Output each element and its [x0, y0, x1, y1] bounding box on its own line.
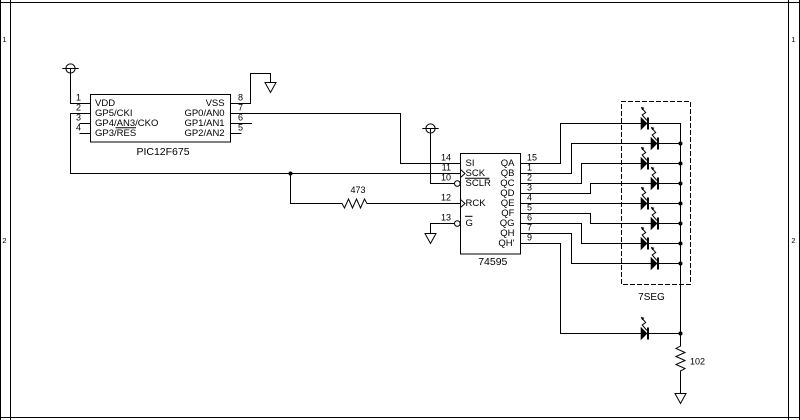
wire U2 QF to LED D6 — [521, 213, 591, 215]
ground symbol GND2 — [425, 234, 436, 244]
U2 G overline — [466, 215, 473, 217]
svg-text:GP3/RES: GP3/RES — [95, 128, 136, 139]
svg-text:RCK: RCK — [466, 198, 487, 209]
LED D1 — [641, 118, 647, 130]
svg-text:11: 11 — [442, 163, 451, 173]
U1 pin 5 stub — [231, 133, 242, 135]
wire U1 pin2 GP5 to U2 SCK — [70, 114, 72, 174]
svg-text:1: 1 — [2, 35, 6, 44]
U2 clock wedge SCK — [461, 170, 466, 178]
wire LED D3 cathode to bus — [649, 163, 681, 165]
svg-text:4: 4 — [76, 123, 81, 133]
U1 pin 2 stub — [71, 113, 91, 115]
svg-text:8: 8 — [238, 93, 243, 103]
svg-text:3: 3 — [76, 113, 81, 123]
svg-text:2: 2 — [791, 236, 795, 245]
wire P1 to U1 pin1 — [70, 69, 72, 104]
ground symbol GND3 — [675, 394, 686, 404]
U2 inversion bubble SCLR pin10 — [455, 181, 461, 187]
svg-text:1: 1 — [791, 35, 795, 44]
U1 pin 6 stub — [231, 123, 252, 125]
frame border — [0, 2, 800, 4]
wire U1 pin8 to ground — [250, 74, 252, 104]
U2 inversion bubble G pin13 — [455, 221, 461, 227]
IC U2 74595 body — [461, 154, 521, 255]
resistor R1 473 — [342, 199, 367, 208]
LED D8 — [651, 258, 657, 270]
LED D6 — [651, 218, 657, 230]
svg-text:2: 2 — [2, 236, 6, 245]
U1 pin 1 stub — [71, 103, 91, 105]
wire U2 QH&#39; to LED D9 — [521, 243, 561, 245]
junction dots on bus — [679, 142, 683, 146]
wire cathode bus vertical — [680, 124, 682, 347]
U1 pin 8 stub — [231, 103, 251, 105]
svg-text:2: 2 — [76, 103, 81, 113]
U1 pin 3 stub — [80, 123, 91, 125]
wire resistor to U2 RCK — [367, 203, 461, 205]
U2 pin 13 stub — [431, 223, 455, 225]
LED D5 — [641, 198, 647, 210]
U1 RES overline — [116, 127, 136, 129]
LED D7 — [641, 238, 647, 250]
svg-text:74595: 74595 — [478, 256, 507, 268]
wire U2 QC to LED D3 — [521, 183, 582, 185]
LED D9 — [641, 328, 647, 340]
wire LED D4 cathode to bus — [659, 183, 681, 185]
wire LED D8 cathode to bus — [659, 263, 681, 265]
wire P2 to U2 SCLR — [430, 129, 432, 184]
svg-text:15: 15 — [527, 153, 537, 163]
svg-text:14: 14 — [441, 153, 451, 163]
wire U2 QD to LED D4 — [521, 193, 591, 195]
LED D4 — [651, 178, 657, 190]
svg-text:7: 7 — [238, 103, 243, 113]
power flag VCC P1 — [66, 64, 75, 73]
U2 pin 14 stub — [440, 163, 461, 165]
display module 7SEG dashed outline — [622, 102, 691, 285]
resistor R2 102 — [676, 346, 685, 371]
power flag VCC P2 — [426, 124, 435, 133]
svg-text:13: 13 — [441, 213, 451, 223]
svg-text:12: 12 — [441, 193, 451, 203]
wire LED D2 cathode to bus — [659, 143, 681, 145]
wire U1 pin7 GP0 to U2 SI — [231, 113, 401, 115]
LED D2 — [651, 138, 657, 150]
wire U2 QB to LED D2 — [521, 173, 572, 175]
wire LED D7 cathode to bus — [649, 243, 681, 245]
wire LED D9 cathode to bus — [649, 333, 681, 335]
wire R2 to ground — [680, 371, 682, 394]
svg-text:1: 1 — [76, 93, 81, 103]
wire U2 QA to LED D1 — [521, 163, 561, 165]
svg-text:SCLR: SCLR — [466, 178, 491, 189]
U2 clock wedge RCK — [461, 200, 466, 208]
ground symbol GND1 — [265, 83, 276, 93]
node junction SCK/RCK — [289, 172, 293, 176]
wire junction down to resistor — [290, 174, 292, 204]
wire U2 QG to LED D7 — [521, 223, 582, 225]
IC U1 PIC12F675 body — [91, 95, 231, 143]
wire U2 QH to LED D8 — [521, 233, 572, 235]
svg-text:QH': QH' — [498, 238, 514, 249]
U2 SCLR overline — [466, 177, 490, 179]
svg-text:7SEG: 7SEG — [638, 292, 665, 303]
svg-text:102: 102 — [690, 357, 705, 367]
svg-text:GP2/AN2: GP2/AN2 — [184, 128, 224, 139]
svg-text:G: G — [466, 218, 473, 229]
U1 pin 4 stub — [80, 133, 91, 135]
wire U2 G to ground — [430, 224, 432, 234]
wire LED D6 cathode to bus — [659, 223, 681, 225]
wire LED D1 cathode to bus — [649, 123, 681, 125]
svg-text:473: 473 — [350, 185, 365, 195]
LED D3 — [641, 158, 647, 170]
svg-text:PIC12F675: PIC12F675 — [136, 146, 189, 158]
svg-text:10: 10 — [441, 173, 451, 183]
wire LED D5 cathode to bus — [649, 203, 681, 205]
svg-text:5: 5 — [238, 123, 243, 133]
wire U2 QE to LED D5 — [521, 203, 642, 205]
